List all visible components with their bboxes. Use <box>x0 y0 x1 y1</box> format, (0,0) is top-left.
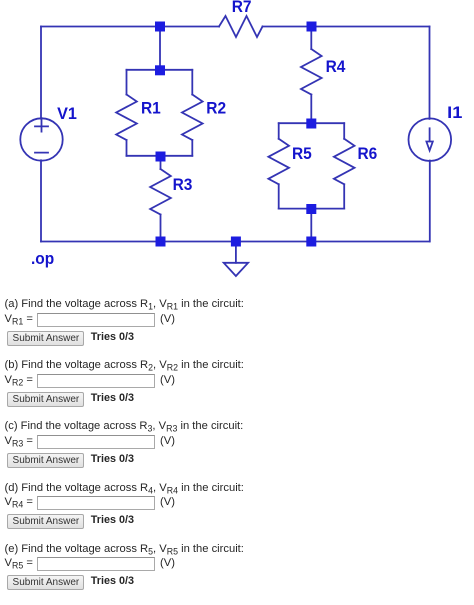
node F <box>306 119 316 129</box>
resistor R1 <box>116 95 137 141</box>
wire node G to bottom <box>310 209 312 242</box>
wire R5R6 box top <box>279 122 345 124</box>
resistor R3 <box>150 169 171 215</box>
wire node A down to R1R2 box <box>159 27 161 71</box>
ground node <box>231 237 241 247</box>
wire bottom <box>41 241 430 243</box>
node B <box>155 65 165 75</box>
node H <box>306 237 316 247</box>
resistor R5 <box>268 139 289 185</box>
node A <box>155 22 165 32</box>
wire box2 right lower lead <box>343 184 345 208</box>
resistor R7 <box>219 16 263 37</box>
wire left side lower <box>40 160 42 241</box>
wire R5R6 box bottom <box>279 208 345 210</box>
wire box left upper lead <box>126 70 128 95</box>
wire R1R2 box bottom <box>127 155 193 157</box>
node G <box>306 204 316 214</box>
svg-text:V1: V1 <box>57 104 77 123</box>
wire box2 right upper lead <box>343 123 345 139</box>
svg-text:R4: R4 <box>326 57 346 76</box>
svg-text:I1: I1 <box>447 103 462 122</box>
wire R7 to top-right <box>263 26 430 28</box>
wire right side lower <box>429 161 431 242</box>
svg-text:.op: .op <box>31 249 54 268</box>
resistor R2 <box>182 95 203 141</box>
wire node C to R3 <box>160 156 162 169</box>
svg-text:R1: R1 <box>141 98 161 117</box>
question (c) <box>5 420 244 433</box>
wire R3 to bottom <box>160 215 162 242</box>
node E <box>307 22 317 32</box>
svg-text:R3: R3 <box>173 175 193 194</box>
wire box left lower lead <box>126 140 128 156</box>
question (e) <box>5 543 244 556</box>
node D <box>156 237 166 247</box>
wire right side upper <box>429 27 431 119</box>
question (d) <box>5 482 244 495</box>
question (a) <box>5 298 244 311</box>
ground <box>224 242 248 277</box>
wire node E down to R4 <box>310 27 312 50</box>
wire box right upper lead <box>191 70 193 95</box>
wire box2 left upper lead <box>278 123 280 139</box>
wire R1R2 box top <box>127 69 193 71</box>
voltage source V1 <box>20 118 62 161</box>
svg-text:R2: R2 <box>206 99 226 118</box>
resistor R6 <box>334 139 355 185</box>
wire left side upper <box>40 27 42 119</box>
wire box right lower lead <box>191 140 193 156</box>
wire box2 left lower lead <box>278 184 280 208</box>
circuit schematic <box>0 0 474 290</box>
wire R4 to node F <box>310 95 312 124</box>
current source I1 <box>409 118 452 161</box>
svg-text:R6: R6 <box>358 144 378 163</box>
wire top-left to R7 <box>41 26 219 28</box>
question (b) <box>5 359 244 372</box>
resistor R4 <box>301 49 322 95</box>
svg-text:R5: R5 <box>292 144 312 163</box>
node C <box>156 152 166 162</box>
svg-text:R7: R7 <box>232 0 252 16</box>
